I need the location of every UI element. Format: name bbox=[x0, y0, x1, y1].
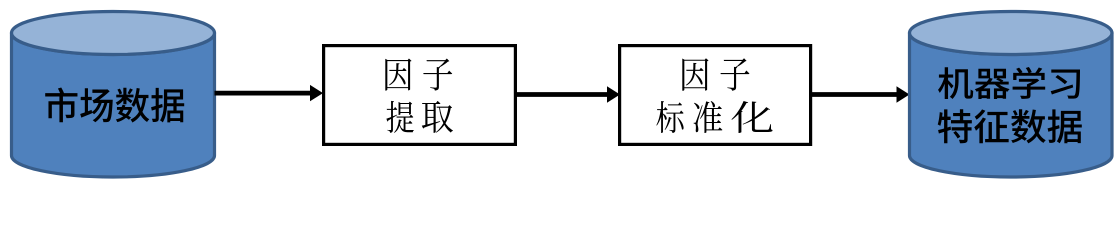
label 因子 line 1 of B1 bbox=[385, 59, 411, 91]
box B2: factor standardization bbox=[620, 46, 811, 145]
cylinder D1: market data database (body) bbox=[12, 33, 215, 177]
label 提取 line 2 of B1 bbox=[386, 101, 413, 133]
label 市场数据 on D1 bbox=[45, 88, 184, 123]
arrow wire 3: B2 to cylinder D2 bbox=[810, 86, 910, 102]
cylinder D2: ML feature data database (body) bbox=[910, 33, 1113, 177]
label 特征数据 line 2 on D2 bbox=[938, 109, 1082, 143]
arrow wire 2: B1 to box B2 bbox=[516, 86, 620, 102]
label 标准化 line 2 of B2 bbox=[656, 101, 683, 133]
box B1: factor extraction bbox=[324, 46, 516, 145]
cylinder D1 top ellipse bbox=[12, 12, 215, 55]
cylinder D2 top ellipse bbox=[910, 12, 1113, 55]
label 机器学习 line 1 on D2 bbox=[938, 67, 1080, 99]
label 因子 line 1 of B2 bbox=[682, 58, 708, 91]
arrow wire 1: D1 to box B1 bbox=[215, 85, 324, 101]
